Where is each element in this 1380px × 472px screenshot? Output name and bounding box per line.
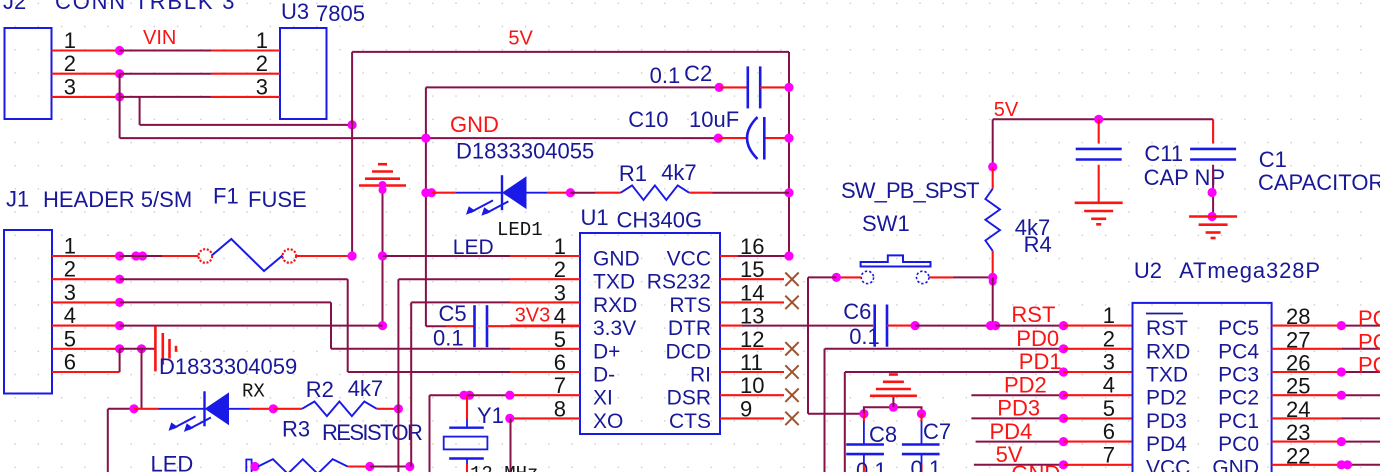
svg-text:4: 4 [1103,373,1115,398]
U2 pin 23 [1272,441,1342,443]
node J1 pin5 tip [115,344,124,353]
svg-text:SW_PB_SPST: SW_PB_SPST [841,178,979,203]
no-connect pin 11 [785,365,798,378]
capacitor C7 [902,443,940,446]
wire VCC to 5V [737,255,789,257]
wire down from RX LED row [107,409,109,472]
svg-text:0.1: 0.1 [856,458,887,472]
wire U2 pin 22 to edge [1341,464,1380,466]
wire GND to C5 [426,325,446,327]
svg-text:XO: XO [593,410,623,433]
svg-text:LED: LED [151,452,194,472]
U1 pin 9 (NC) [720,417,784,419]
svg-text:3.3V: 3.3V [593,317,636,340]
wire U1 TXD [398,278,510,280]
U1 pin 8 [510,417,580,419]
R2 left pin [273,408,302,410]
node R1 right on 5V [784,188,793,197]
node LED1 cathode junction [421,188,430,197]
wire R1 to 5V vertical [713,192,790,194]
node J2 pin3 tip [115,92,124,101]
C7 bottom pin [920,464,922,472]
node R4 top [988,162,997,171]
svg-text:6: 6 [554,350,566,375]
U1 pin 5 [510,348,580,350]
node J1 pin1 tip [115,251,124,260]
svg-text:J2: J2 [3,0,26,14]
wire PD0 vertical down [824,349,826,472]
wire J1.2 [120,278,348,280]
RX LED cathode pin [134,408,159,410]
ground (earth) near F1 [359,184,406,187]
svg-text:CH340G: CH340G [617,208,703,233]
wire U2 pin 25 to edge [1341,394,1380,396]
wire U2 pin 24 to edge [1341,417,1380,419]
node LED/R2 [269,404,278,413]
svg-text:1: 1 [256,28,268,53]
U1 pin 6 [510,371,580,373]
svg-text:C1: C1 [1259,147,1287,172]
wire U2 pin 28 to edge [1341,325,1380,327]
svg-text:DSR: DSR [667,387,711,410]
wire J1.5 to J1.6 [119,349,121,372]
RX LED anode lead [229,408,250,410]
R2 right pin [377,408,399,410]
wire U1 GND row [383,255,511,257]
wire J1.3 down [330,302,332,348]
node R3 right [365,462,374,471]
svg-text:6: 6 [1103,419,1115,444]
node C8 top [859,409,868,418]
svg-text:4: 4 [64,303,76,328]
svg-text:PD2: PD2 [1146,387,1187,410]
U2 pin 5 [1064,417,1133,419]
capacitor C10 curved plate [747,117,758,159]
node U2 pin3 tip [1059,367,1068,376]
svg-text:1: 1 [554,234,566,259]
node U2 pin4 tip [1059,391,1068,400]
svg-text:PC1: PC1 [1218,410,1259,433]
svg-text:7: 7 [1103,442,1115,467]
U1 pin 15 (NC) [720,278,784,280]
svg-text:U2: U2 [1134,258,1162,283]
ground (earth) below C11 [1075,202,1123,205]
wire RXD vertical down to R3 [410,302,412,466]
header J1 body [4,230,52,394]
U1 pin 1 [510,255,580,257]
svg-text:R2: R2 [306,377,334,402]
svg-text:1: 1 [64,28,76,53]
svg-text:4k7: 4k7 [348,376,383,401]
svg-text:C11: C11 [1144,141,1183,166]
switch SW1 pushbutton [861,255,931,266]
U1 pin 7 [510,394,580,396]
svg-text:0.1: 0.1 [433,326,464,351]
no-connect pin 10 [785,389,798,402]
ground (earth) at C8/C7 [870,394,917,397]
C2 left pin [719,86,748,88]
node XI pin tip [505,391,514,400]
node C7 top [917,409,926,418]
svg-text:J1: J1 [6,187,29,212]
node C10 right on 5V [784,134,793,143]
wire to U1 D+ [331,348,510,350]
svg-text:GND: GND [593,248,640,271]
svg-text:3: 3 [554,280,566,305]
J2 pin 1 [52,49,120,51]
SW1 right pin [929,276,953,278]
wire 5V vertical right to U1 VCC [788,52,790,256]
LED1 anode lead [526,192,547,194]
U3 pin 1 [211,49,280,51]
J1 pin 4 [52,325,120,327]
svg-text:DTR: DTR [668,317,711,340]
svg-text:5: 5 [1103,396,1115,421]
U2 pin 24 [1272,417,1342,419]
svg-text:PD0: PD0 [1016,326,1059,351]
node C2 left [715,83,724,92]
svg-text:DCD: DCD [666,340,712,363]
U2 pin 25 [1272,394,1342,396]
svg-text:6: 6 [64,350,76,375]
node U2 pin5 tip [1059,414,1068,423]
svg-text:PC2: PC2 [1218,387,1259,410]
svg-text:PD3: PD3 [1146,410,1187,433]
node GND rail/vertical [421,134,430,143]
node U2 pin6 tip [1059,437,1068,446]
U1 pin 14 (NC) [720,301,784,303]
node ground/J1.4 row [378,321,387,330]
svg-text:R1: R1 [619,161,647,186]
U1 pin 13 [720,325,742,327]
wire U3 output loop down [139,97,141,125]
svg-text:D1833304059: D1833304059 [159,354,297,379]
RX LED lead [159,408,205,410]
R4 bottom pin [992,251,994,278]
U2 pin 27 [1272,348,1342,350]
svg-text:PC3: PC3 [1218,364,1259,387]
fuse F1 left pin [162,255,198,257]
node U2 right pin tip [1337,437,1346,446]
crystal Y1 [466,419,468,427]
svg-text:10uF: 10uF [689,107,739,132]
wire SW1 left [808,276,836,278]
J1 pin 3 [52,301,120,303]
wire R4/SW1 down to RST [992,277,994,325]
LED1 anode pin [547,192,567,194]
svg-text:C2: C2 [684,61,712,86]
capacitor C6 [873,305,876,347]
wire U2 pin 23 to edge [1341,441,1380,443]
C10 straight plate [763,117,766,160]
node U1 VCC/5V [784,251,793,260]
no-connect pin 12 [785,342,798,355]
svg-text:VIN: VIN [143,27,176,49]
svg-text:PC4: PC4 [1218,340,1259,363]
node SW1 left [832,273,841,282]
U2 pin 7 [1064,464,1133,466]
node ground stem [379,186,387,194]
svg-text:3: 3 [64,280,76,305]
capacitor C1 [1190,148,1236,151]
U2 RST overline [1146,313,1183,315]
svg-text:C6: C6 [843,299,871,324]
node ground stem C8C7 [889,403,898,412]
svg-text:2: 2 [1103,326,1115,351]
wire RST to U2 pin1 [996,325,1064,327]
svg-text:U1: U1 [581,205,609,230]
Y1 top pin [466,395,468,419]
svg-text:5V: 5V [994,99,1019,121]
svg-text:2: 2 [64,257,76,282]
svg-text:1: 1 [64,234,76,259]
resistor R3 [258,459,348,472]
U2 pin 2 [1064,348,1133,350]
wire 5V right rail [993,118,1213,120]
wire PD1 vertical down [844,372,846,472]
wire to R1 [570,192,595,194]
U1 pin 10 (NC) [720,394,784,396]
U1 pin 11 (NC) [720,371,784,373]
svg-text:F1: F1 [213,184,239,209]
connector J2 body [5,28,52,119]
wire ground stem down to J1.4 net [382,186,384,326]
wire PD0 [825,348,1064,350]
svg-text:1: 1 [1103,303,1115,328]
svg-text:PD2: PD2 [1004,372,1047,397]
fuse F1 right pin to 5V [296,255,352,257]
svg-text:TXD: TXD [593,271,635,294]
node R3/RXD vertical [405,462,414,471]
svg-text:23: 23 [1286,420,1310,445]
svg-text:3: 3 [256,74,268,99]
svg-text:0.1: 0.1 [650,63,681,88]
node U2 pin2 tip [1059,344,1068,353]
C2 right pin [760,86,789,88]
RX LED anode pin [250,408,270,410]
resistor R4 [985,189,1000,251]
no-connect pin 14 [785,296,798,309]
capacitor C5 [473,305,476,347]
U2 pin 4 [1064,394,1133,396]
wire U2 pin 27 to edge [1341,348,1380,350]
svg-text:RESISTOR: RESISTOR [322,420,422,445]
node U2 right pin tip [1337,321,1346,330]
node RST junction [986,321,995,330]
svg-text:C5: C5 [439,301,467,326]
node J1.5 branch [137,344,146,353]
wire J2.2-J2.3 [119,74,121,97]
R3 right pin [348,465,370,467]
C10 right pin [766,137,790,139]
C7 bottom lead [921,454,923,464]
wire PD2 [971,394,1063,396]
node C6 right [911,321,920,330]
svg-text:PD4: PD4 [1146,433,1187,456]
resistor R2 [302,402,377,417]
wire to U1 D- [348,371,510,373]
J1 pin 2 [52,278,120,280]
C10 left pin [718,137,748,139]
wire 5V to R4 [992,119,994,167]
wire GND vertical to C5 [425,87,427,326]
svg-text:PD3: PD3 [997,396,1040,421]
wire C2 left branch [426,86,719,88]
LED1 lead [456,192,502,194]
wire U1 DTR to C6 [742,325,873,327]
svg-text:26: 26 [1286,351,1310,376]
R4 top pin [992,167,994,189]
J1 pin 6 [52,371,120,373]
svg-text:SW1: SW1 [862,211,910,236]
node J2 pin1 tip [115,46,124,55]
C7 top pin [920,414,922,421]
node U2 right pin tip [1337,367,1346,376]
node R2/TXD vertical [394,404,403,413]
U1 pin 16 VCC [720,255,737,257]
capacitor C8 [846,443,884,446]
wire PD4 [976,441,1064,443]
LED RX (D1833304059) [203,391,205,426]
svg-text:CAPACITOR: CAPACITOR [1258,170,1380,195]
C5 right pin to U1 3.3V [487,325,580,327]
wire PD1 [845,371,1064,373]
svg-text:PC0: PC0 [1218,433,1259,456]
wire J2.3 down to GND rail [119,97,121,138]
wire J2.2 to U3.2 [120,73,211,75]
svg-text:TXD: TXD [1146,364,1188,387]
J2 pin 2 [52,73,120,75]
wire C6 to RST [915,325,990,327]
wire SW1 right to R4 [953,276,993,278]
wire J1.4 to ground stem [120,325,383,327]
wire 5V [974,464,1064,466]
svg-text:24: 24 [1286,397,1310,422]
C6 right pin [887,325,915,327]
svg-text:R4: R4 [1024,232,1052,257]
svg-text:0.1: 0.1 [911,456,942,472]
capacitor C11 [1076,148,1122,151]
wire XI vertical down [429,395,431,472]
svg-text:3: 3 [64,74,76,99]
SW1 left pin [836,276,861,278]
wire XO vertical down [510,418,512,472]
svg-text:CONN TRBLK 3: CONN TRBLK 3 [55,0,236,14]
svg-text:PC5: PC5 [1358,306,1380,331]
U1 pin 2 [510,278,580,280]
svg-text:2: 2 [554,257,566,282]
wire U3 output loop to 5V [140,124,353,126]
U2 pin 28 [1272,325,1342,327]
svg-text:VCC: VCC [1146,456,1190,472]
svg-text:R3: R3 [282,417,310,442]
J1 pin 5 [52,348,120,350]
svg-text:ATmega328P: ATmega328P [1179,258,1321,283]
svg-text:RS232: RS232 [647,271,711,294]
C5 left pin [446,325,475,327]
svg-text:C7: C7 [923,419,951,444]
node fuse/5V vertical [348,251,357,260]
no-connect pin 15 [785,273,798,286]
U3 pin 2 [211,73,280,75]
node C11/5V [1094,115,1103,124]
svg-text:28: 28 [1286,304,1310,329]
U2 pin 3 [1064,371,1133,373]
C1 top pin [1212,119,1214,143]
wire GND rail [120,137,719,139]
wire J1.2 down [347,279,349,372]
svg-text:3V3: 3V3 [515,305,551,327]
svg-text:RI: RI [690,364,711,387]
svg-text:GND: GND [450,112,499,137]
svg-text:7805: 7805 [316,1,365,26]
U2 pin 6 [1064,441,1133,443]
C8 bottom pin [863,464,865,472]
svg-text:22: 22 [1286,443,1310,468]
svg-text:RTS: RTS [669,294,711,317]
node LED1/R1 [566,188,575,197]
svg-text:4k7: 4k7 [661,160,696,185]
wire C8-C7 bridge [864,407,922,414]
node U2 right pin tip [1337,391,1346,400]
svg-text:2: 2 [64,51,76,76]
wire U1 RXD [411,301,510,303]
R1 left pin [595,192,621,194]
Y1 bottom pin [466,464,468,472]
svg-text:25: 25 [1286,374,1310,399]
svg-text:7: 7 [554,373,566,398]
svg-text:3: 3 [1103,350,1115,375]
svg-text:U3: U3 [281,0,309,24]
svg-text:VCC: VCC [667,248,711,271]
svg-text:8: 8 [554,396,566,421]
svg-text:5V: 5V [508,28,533,50]
node loop/5V junction [348,120,357,129]
svg-text:5: 5 [64,326,76,351]
wire RX LED row left [108,408,134,410]
node Y1 top [459,391,468,400]
svg-text:D1833304055: D1833304055 [456,139,594,164]
svg-text:CTS: CTS [669,410,711,433]
wire J1.1 to fuse [120,255,162,257]
svg-text:2: 2 [256,51,268,76]
svg-text:RXD: RXD [1146,340,1190,363]
svg-text:C8: C8 [869,422,897,447]
resistor R1 [621,185,689,200]
svg-text:C10: C10 [628,107,668,132]
node U2 pin1 tip [1059,321,1068,330]
J1 pin 1 [52,255,120,257]
svg-text:PD4: PD4 [990,419,1033,444]
LED LED1 [501,175,503,210]
node J1 pin3 tip [115,298,124,307]
node J2 pin2 tip [115,69,124,78]
J2 pin 3 [52,96,120,98]
svg-text:D+: D+ [593,340,620,363]
wire 5V rail top [352,51,789,53]
wire 5V vertical left [351,52,353,256]
wire Y1 to XI [467,394,510,396]
svg-text:PC3: PC3 [1358,353,1380,378]
wire J1.3 [120,301,331,303]
IC U2 body (clipped bottom) [1133,303,1272,472]
wire XI row [430,394,468,396]
node J1 pin4 tip [115,321,124,330]
svg-text:12 MHz: 12 MHz [470,463,538,472]
wire R3 to RXD vertical [370,466,410,468]
svg-text:27: 27 [1286,327,1310,352]
wire J2.3 to U3.3 [120,96,211,98]
